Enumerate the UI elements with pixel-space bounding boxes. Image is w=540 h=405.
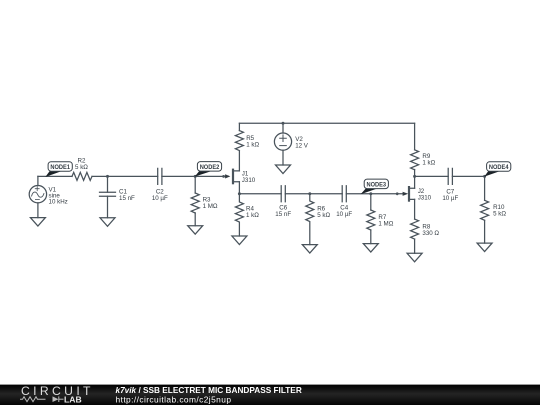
svg-text:10 kHz: 10 kHz xyxy=(49,199,68,206)
R3 label xyxy=(203,196,218,210)
ground (C1) xyxy=(100,218,115,227)
ground (R4) xyxy=(232,236,247,245)
R9 label xyxy=(422,153,435,167)
svg-text:12 V: 12 V xyxy=(295,143,309,150)
resistor R10 xyxy=(481,200,489,220)
wire R5 top to rail xyxy=(238,123,240,130)
wire J2 source down xyxy=(414,199,416,219)
svg-text:NODE3: NODE3 xyxy=(367,182,387,188)
capacitor C2 xyxy=(158,168,162,184)
svg-text:1 MΩ: 1 MΩ xyxy=(203,203,218,210)
ground (R6) xyxy=(302,245,317,254)
C1 label xyxy=(119,188,135,202)
CircuitLab logo resistor-diode glyph xyxy=(20,396,64,402)
J1 label xyxy=(242,171,256,185)
wire R7 lower lead xyxy=(370,230,372,244)
svg-text:http://circuitlab.com/c2j5nup: http://circuitlab.com/c2j5nup xyxy=(116,395,232,405)
C2 label xyxy=(152,188,168,202)
svg-text:LAB: LAB xyxy=(64,395,82,405)
svg-text:5 kΩ: 5 kΩ xyxy=(317,212,330,219)
node A junction dot xyxy=(106,175,109,178)
R5 label xyxy=(246,135,259,149)
R2 label xyxy=(75,157,88,171)
wire J1 source down xyxy=(238,182,240,194)
wire C1 upper lead xyxy=(107,176,109,192)
R10 label xyxy=(493,204,506,218)
voltage source V1 xyxy=(29,176,46,217)
node B junction dot (NODE2) xyxy=(194,175,197,178)
V1 value label xyxy=(49,187,68,206)
node G junction dot (NODE4) xyxy=(483,175,486,178)
transistor J1 (n-JFET) xyxy=(222,170,239,184)
R4 label xyxy=(246,206,259,220)
wire R2 to C2 xyxy=(92,175,158,177)
wire C2 to J1 gate xyxy=(162,175,229,177)
node F junction dot (J2 drain) xyxy=(413,175,416,178)
svg-text:1 MΩ: 1 MΩ xyxy=(378,221,393,228)
wire R3 upper lead xyxy=(194,176,196,193)
resistor R7 xyxy=(367,210,375,230)
capacitor C6 xyxy=(281,186,285,202)
node NODE3 flag xyxy=(361,179,389,194)
wire C7 to NODE4 xyxy=(452,175,484,177)
resistor R9 xyxy=(411,150,419,170)
voltage source V2 xyxy=(274,133,291,150)
wire C1 lower lead xyxy=(107,196,109,218)
ground (R8) xyxy=(407,253,422,261)
svg-text:330 Ω: 330 Ω xyxy=(422,230,439,237)
svg-text:1 kΩ: 1 kΩ xyxy=(422,160,435,167)
wire R10 upper lead xyxy=(484,176,486,200)
resistor R8 xyxy=(411,219,419,239)
wire R7 upper lead xyxy=(370,194,372,210)
resistor R3 xyxy=(191,193,199,213)
resistor R6 xyxy=(306,194,314,245)
R7 label xyxy=(378,214,393,228)
C7 label xyxy=(442,188,458,202)
node C junction dot (J1 source) xyxy=(238,192,241,195)
ground (R7) xyxy=(363,244,378,253)
wire top rail xyxy=(239,122,414,124)
node NODE4 flag xyxy=(484,162,511,177)
node rail junction dot xyxy=(282,122,285,125)
wire C4 to J2 gate xyxy=(346,193,404,195)
svg-text:15 nF: 15 nF xyxy=(275,211,291,218)
svg-text:10 µF: 10 µF xyxy=(336,211,352,218)
wire J2 drain to C7 xyxy=(415,175,449,177)
resistor R5 xyxy=(235,131,243,151)
resistor R2 xyxy=(72,172,92,180)
svg-text:NODE2: NODE2 xyxy=(200,165,220,171)
wire C6 to C4 xyxy=(285,193,342,195)
svg-text:10 µF: 10 µF xyxy=(442,195,458,202)
V2 label xyxy=(295,136,309,150)
wire R3 lower lead xyxy=(194,213,196,226)
wire J1 drain up xyxy=(238,152,240,171)
ground (V2) xyxy=(276,165,291,174)
wire R10 lower lead xyxy=(484,220,486,243)
svg-text:1 kΩ: 1 kΩ xyxy=(246,212,259,219)
svg-text:10 µF: 10 µF xyxy=(152,195,168,202)
svg-text:J310: J310 xyxy=(418,195,432,202)
svg-text:5 kΩ: 5 kΩ xyxy=(75,164,88,171)
svg-text:5 kΩ: 5 kΩ xyxy=(493,211,506,218)
wire R8 lower lead xyxy=(414,239,416,253)
node E junction dot (NODE3) xyxy=(369,192,372,195)
wire J1 source to C6 xyxy=(239,193,281,195)
wire V2 top lead xyxy=(282,123,284,133)
transistor J2 (n-JFET) xyxy=(396,187,415,201)
C6 label xyxy=(275,205,291,219)
svg-text:J310: J310 xyxy=(242,177,256,184)
resistor R4 xyxy=(235,194,243,236)
svg-text:1 kΩ: 1 kΩ xyxy=(246,142,259,149)
capacitor C1 xyxy=(100,192,116,196)
capacitor C4 xyxy=(342,186,346,202)
capacitor C7 xyxy=(448,168,452,184)
svg-text:NODE4: NODE4 xyxy=(489,165,509,171)
ground (R3) xyxy=(188,226,203,235)
node NODE1 flag xyxy=(45,162,72,177)
wire V2 bottom lead xyxy=(282,150,284,165)
node NODE2 flag xyxy=(195,162,222,177)
node D junction dot (R6 top) xyxy=(308,192,311,195)
C4 label xyxy=(336,205,352,219)
wire node1 to R2 xyxy=(38,175,72,177)
wire J2 drain up xyxy=(414,176,416,188)
ground (R10) xyxy=(477,243,492,252)
ground (V1) xyxy=(30,218,45,227)
R6 label xyxy=(317,206,330,220)
R8 label xyxy=(422,223,439,237)
wire R9 lower lead xyxy=(414,170,416,177)
svg-text:15 nF: 15 nF xyxy=(119,195,135,202)
wire R9 top to rail xyxy=(414,123,416,150)
svg-text:NODE1: NODE1 xyxy=(50,165,70,171)
J2 label xyxy=(418,188,432,202)
